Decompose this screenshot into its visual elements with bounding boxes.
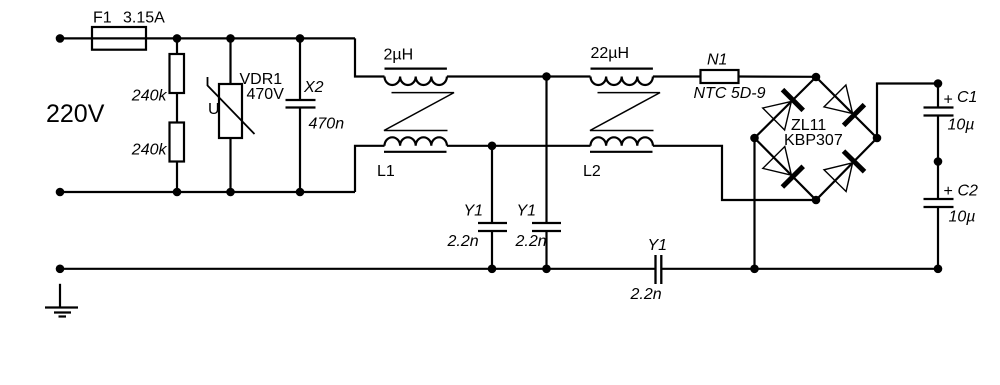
diode D3 lower-left <box>763 147 803 188</box>
svg-text:3.15A: 3.15A <box>123 10 165 27</box>
node bridge top <box>812 73 821 82</box>
varistor VDR1 <box>208 38 255 192</box>
thermistor N1 <box>701 70 739 83</box>
capacitor C2 <box>924 162 954 269</box>
node bottom wire / Y1 first <box>488 142 497 151</box>
node top rail / X2 <box>296 34 305 43</box>
capacitor C1 <box>924 84 954 162</box>
svg-text:N1: N1 <box>707 52 727 69</box>
choke L1 bottom winding <box>384 137 447 152</box>
capacitor Y1 in earth rail <box>656 255 662 284</box>
capacitor Y1 second (top line) <box>532 77 561 269</box>
svg-text:2µH: 2µH <box>384 47 414 64</box>
svg-text:KBP307: KBP307 <box>784 132 843 149</box>
svg-text:2.2n: 2.2n <box>630 286 662 303</box>
svg-text:220V: 220V <box>46 100 105 128</box>
wire bridge left down to earth rail <box>753 138 755 269</box>
svg-text:L1: L1 <box>377 163 395 180</box>
wire top between chokes <box>447 75 591 77</box>
svg-text:+: + <box>944 183 953 200</box>
wire lower step up to choke bottom level <box>355 146 385 192</box>
svg-text:470V: 470V <box>247 86 285 103</box>
svg-text:C1: C1 <box>957 89 977 106</box>
capacitor X2 <box>286 38 316 192</box>
node bridge left <box>750 134 759 143</box>
choke L1 core Z <box>384 93 454 131</box>
choke L2 top winding <box>591 69 653 85</box>
node earth / Y1 first <box>488 265 497 274</box>
svg-text:10µ: 10µ <box>948 117 975 134</box>
node C1/C2 junction <box>934 157 943 166</box>
ground <box>45 284 78 317</box>
svg-text:2.2n: 2.2n <box>515 233 547 250</box>
node earth / C2 <box>934 265 943 274</box>
wire earth rail right segment <box>661 268 938 270</box>
node bottom rail / X2 <box>296 188 305 197</box>
diode D1 upper-left <box>763 90 804 130</box>
diode D4 lower-right <box>824 151 865 191</box>
svg-text:10µ: 10µ <box>949 209 976 226</box>
svg-text:2.2n: 2.2n <box>447 233 479 250</box>
wire bridge right to C1 top <box>877 84 938 139</box>
wire lower mains rail <box>56 191 355 193</box>
svg-text:X2: X2 <box>303 79 324 96</box>
svg-text:22µH: 22µH <box>591 45 630 62</box>
wire resistor top lead <box>176 38 178 54</box>
svg-text:NTC 5D-9: NTC 5D-9 <box>694 85 766 102</box>
node left bottom terminal <box>56 188 65 197</box>
node bridge right <box>873 134 882 143</box>
wire top step down to choke level <box>355 38 385 76</box>
node bridge bottom <box>812 196 821 205</box>
node earth / Y1 second <box>542 265 551 274</box>
node left top terminal <box>56 34 65 43</box>
node bottom rail / VDR1 <box>226 188 235 197</box>
node earth / bridge left <box>750 265 759 274</box>
wire L2 bottom to bridge bottom <box>653 146 816 200</box>
svg-text:Y1: Y1 <box>464 203 484 220</box>
node top rail / resistors <box>173 34 182 43</box>
wire L2 top to N1 <box>653 75 701 77</box>
svg-text:F1: F1 <box>93 10 112 27</box>
svg-text:240k: 240k <box>131 88 168 105</box>
svg-text:Y1: Y1 <box>517 203 537 220</box>
node bottom rail / resistors <box>173 188 182 197</box>
choke L1 top winding <box>385 69 447 85</box>
resistor R upper 240k <box>170 54 185 93</box>
wire earth rail left segment <box>56 268 655 270</box>
choke L2 bottom winding <box>590 137 653 152</box>
capacitor Y1 first (bottom line) <box>478 146 507 269</box>
fuse F1 <box>92 27 146 50</box>
node earth left <box>56 265 65 274</box>
node C1 top <box>934 79 943 88</box>
resistor R lower 240k <box>170 93 185 192</box>
svg-text:240k: 240k <box>131 142 168 159</box>
svg-text:+: + <box>944 92 953 109</box>
node top wire / Y1 second <box>542 72 551 81</box>
bridge ZL11 diamond <box>755 77 878 200</box>
svg-text:U: U <box>208 101 220 118</box>
svg-text:470n: 470n <box>309 116 345 133</box>
wire N1 to bridge top <box>739 75 817 78</box>
svg-text:Y1: Y1 <box>648 237 668 254</box>
choke L2 core Z <box>590 93 660 131</box>
diode D2 upper-right <box>824 85 864 125</box>
svg-text:L2: L2 <box>583 163 601 180</box>
wire top rail <box>56 37 355 39</box>
svg-text:C2: C2 <box>958 183 979 200</box>
node top rail / VDR1 <box>226 34 235 43</box>
wire bottom between chokes <box>447 145 591 147</box>
